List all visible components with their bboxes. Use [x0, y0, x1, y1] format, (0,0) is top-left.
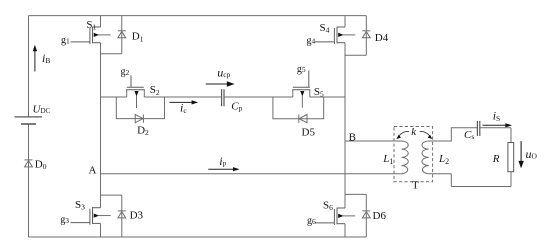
wire left rail lower [28, 124, 30, 237]
svg-text:D3: D3 [130, 210, 144, 222]
current arrow is [483, 123, 513, 127]
svg-text:S4: S4 [320, 22, 330, 35]
current arrow ip [208, 167, 239, 171]
wire D6 branch [345, 194, 366, 237]
wire S1 source to D1 [101, 43, 122, 54]
wire left rail upper [28, 16, 30, 117]
wire secondary top right [480, 128, 511, 143]
mosfet S1 [71, 27, 111, 44]
svg-text:Cs: Cs [464, 129, 474, 141]
diode D0 [25, 160, 33, 167]
svg-text:D6: D6 [373, 210, 387, 222]
svg-text:g5: g5 [297, 64, 306, 75]
resistor R [508, 143, 514, 172]
svg-text:uO: uO [526, 147, 538, 161]
current arrow iB [33, 45, 37, 72]
svg-text:g2: g2 [121, 66, 130, 77]
wire D2 loop [116, 97, 164, 119]
svg-text:L2: L2 [438, 153, 449, 166]
coupling arrow left [396, 131, 409, 139]
svg-text:Cp: Cp [231, 101, 242, 113]
wire S1 drain [100, 16, 102, 27]
wire L2 bottom lead [429, 174, 452, 187]
diode D3 [118, 211, 126, 218]
svg-text:iS: iS [493, 108, 501, 122]
wire secondary right lower [510, 172, 512, 187]
wire D3 branch [101, 195, 122, 237]
svg-text:T: T [412, 180, 419, 192]
mosfet S6 [315, 208, 355, 225]
wire D1 branch [121, 16, 123, 54]
wire node B to L1 [345, 140, 402, 142]
wire top rail [29, 15, 367, 17]
wire right leg (B node column) [344, 43, 346, 208]
capacitor Cs [477, 121, 479, 136]
diode D2 [135, 114, 143, 122]
svg-text:g3: g3 [60, 215, 69, 226]
mosfet S3 [71, 207, 111, 224]
svg-text:S6: S6 [323, 199, 333, 212]
diode D6 [362, 211, 370, 218]
wire S4 drain [344, 16, 346, 27]
inductor L1 [402, 141, 409, 174]
wire bottom rail [29, 236, 367, 238]
wire S3 source [100, 224, 102, 238]
svg-text:D1: D1 [132, 31, 144, 44]
wire left leg (A node column) [100, 54, 102, 208]
mosfet S5 [292, 71, 310, 108]
current arrow ic [170, 100, 199, 104]
svg-text:UDC: UDC [33, 104, 51, 116]
svg-text:g1: g1 [61, 35, 70, 46]
svg-text:D0: D0 [35, 159, 47, 172]
svg-text:D4: D4 [375, 32, 389, 44]
svg-text:B: B [349, 131, 356, 143]
svg-text:A: A [89, 164, 97, 176]
voltage arrow uO [518, 141, 523, 168]
svg-text:ucp: ucp [217, 66, 230, 80]
svg-text:iB: iB [42, 51, 50, 65]
mosfet S4 [315, 27, 355, 44]
svg-text:k: k [411, 126, 417, 138]
wire S6 source [344, 224, 346, 237]
svg-text:ip: ip [219, 154, 226, 168]
svg-text:S2: S2 [150, 84, 160, 97]
battery UDC [15, 117, 43, 124]
wire D4 branch [345, 16, 366, 56]
diode D1 [118, 31, 126, 38]
svg-text:g6: g6 [307, 216, 316, 227]
inductor L2 [422, 141, 429, 174]
svg-text:S1: S1 [86, 19, 96, 32]
capacitor Cp [222, 89, 224, 106]
wire L2 top lead [429, 128, 477, 141]
wire secondary bottom [451, 186, 511, 188]
svg-text:R: R [492, 153, 500, 165]
svg-text:D2: D2 [137, 125, 149, 138]
diode D5 [299, 114, 307, 122]
diode D4 [362, 31, 370, 38]
svg-text:D5: D5 [302, 126, 316, 138]
svg-text:g4: g4 [307, 35, 316, 46]
coupling arrow right [420, 131, 433, 139]
wire middle branch left [101, 90, 222, 97]
transformer T dashed box [394, 127, 433, 182]
wire middle branch center [224, 90, 345, 97]
wire node A to L1 [101, 173, 402, 175]
svg-text:S5: S5 [314, 86, 324, 99]
voltage arrow ucp [206, 81, 235, 86]
wire D5 loop [273, 97, 324, 119]
svg-text:L1: L1 [382, 153, 393, 166]
svg-text:S3: S3 [75, 199, 85, 212]
mosfet S2 [126, 76, 144, 109]
